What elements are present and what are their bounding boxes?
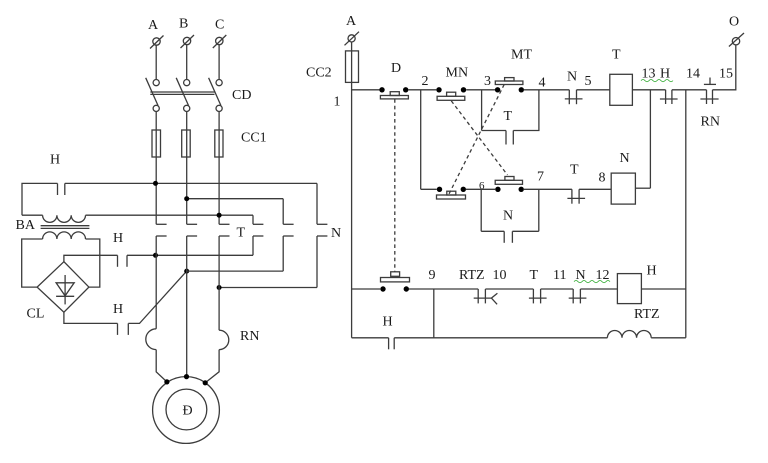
contact H interlock row1 [660, 90, 678, 104]
svg-text:T: T [612, 48, 621, 63]
phase terminal C [213, 35, 227, 48]
svg-text:H: H [647, 264, 657, 279]
control terminal A [345, 32, 360, 46]
wire row3 rail to button [352, 288, 381, 290]
svg-text:5: 5 [585, 74, 592, 89]
wire phase C CD to contact cut [218, 112, 220, 225]
svg-text:1: 1 [334, 95, 341, 110]
wire B terminal to CD [186, 45, 188, 80]
svg-text:3: 3 [484, 74, 491, 89]
contact N self hold [504, 231, 512, 243]
wire row1 D to MN [408, 89, 436, 91]
wire row1 N contact to T coil [577, 89, 610, 91]
pushbutton MN [436, 87, 466, 100]
rectifier CL [37, 262, 89, 313]
wire node6 down [480, 189, 482, 231]
node dot phase B lower [184, 269, 189, 274]
contact H on DC plus line [118, 255, 128, 266]
wire right vertical rail [685, 90, 687, 338]
svg-text:H: H [113, 302, 123, 317]
wire N hold branch right [512, 230, 538, 232]
wire left rail [351, 42, 353, 338]
svg-text:10: 10 [493, 268, 507, 283]
fuse CC1 pole C [215, 130, 223, 157]
wire row2 button1 to button2 [466, 188, 495, 190]
pushbutton forward hold [495, 177, 524, 193]
svg-text:11: 11 [553, 268, 566, 283]
dashed link D to lower button [394, 99, 396, 271]
wire node9 down to row4 [433, 289, 435, 338]
contact RN control [700, 90, 718, 104]
svg-text:MN: MN [446, 66, 469, 81]
coil RTZ inductor [607, 330, 651, 337]
wire secondary right down to CL [86, 239, 100, 287]
wire row1 MT to N contact [524, 89, 569, 91]
wire bus3 primary to leg4 [86, 214, 254, 216]
switch CD [146, 78, 223, 112]
wire phase C lower [218, 236, 220, 330]
fuse CC1 pole A [152, 130, 161, 157]
fuse CC1 pole B [182, 130, 191, 157]
motor D [153, 377, 220, 444]
svg-text:CC1: CC1 [241, 131, 267, 146]
wire leg4 [252, 215, 254, 255]
thermal element RN phase A [146, 329, 156, 350]
svg-text:14: 14 [686, 67, 700, 82]
svg-text:D: D [391, 61, 401, 76]
svg-text:T: T [530, 268, 539, 283]
svg-text:A: A [148, 18, 159, 33]
wire row3 T to N contact [541, 288, 574, 290]
wire node2 down to row2 [420, 90, 422, 190]
svg-text:15: 15 [719, 67, 733, 82]
svg-text:T: T [237, 226, 246, 241]
squiggle under 13 H [641, 80, 673, 82]
thermal element RN phase C [219, 330, 229, 349]
svg-text:7: 7 [537, 170, 544, 185]
wire leg5 [282, 199, 284, 271]
wire row1 T coil to H contact [632, 89, 665, 91]
svg-text:H: H [660, 67, 670, 82]
fuse CC2 [346, 51, 359, 83]
wire secondary left down to CL [22, 239, 43, 287]
svg-text:9: 9 [429, 268, 436, 283]
svg-text:T: T [570, 163, 579, 178]
contact T interlock row3 [529, 289, 547, 303]
dashed link MT to forward hold button [449, 85, 505, 195]
wire phase A to motor [156, 350, 167, 382]
pushbutton D [379, 87, 408, 99]
contact H on DC minus line [118, 323, 129, 335]
wire row1 MN to MT [466, 89, 495, 91]
wire row3 RTZ to T contact [485, 288, 533, 290]
svg-text:B: B [179, 17, 188, 32]
wire leg6 [316, 183, 318, 287]
contact T interlock row2 [567, 189, 585, 203]
dashed link MN to reverse button [451, 101, 507, 175]
wire phase A lower [155, 236, 157, 329]
svg-text:12: 12 [596, 268, 610, 283]
wire row1 RN to O terminal [713, 45, 736, 90]
wire N coil out [635, 187, 650, 189]
svg-text:T: T [504, 109, 513, 124]
wire phase C lower link [219, 287, 317, 289]
svg-text:CC2: CC2 [306, 66, 332, 81]
wire row3 H coil out [641, 288, 685, 290]
wire DC plus line to leg4 [127, 254, 253, 256]
wire phase C to motor [205, 350, 219, 383]
transformer BA [22, 215, 89, 239]
contact N pole 1 [253, 224, 263, 236]
wire row1 H contact to RN [672, 89, 707, 91]
control terminal O [729, 33, 744, 47]
wire CL top to H contact [64, 255, 118, 261]
svg-text:4: 4 [539, 76, 546, 91]
svg-text:O: O [729, 15, 739, 30]
svg-text:RTZ: RTZ [459, 268, 485, 283]
node dot phase C lower [217, 285, 222, 290]
contact H self hold [389, 338, 395, 350]
wire T hold branch [482, 130, 506, 132]
svg-text:H: H [50, 153, 60, 168]
wire row4 right [651, 337, 686, 339]
svg-text:6: 6 [479, 180, 485, 192]
wire CL bottom to H contact [64, 312, 118, 323]
svg-text:N: N [331, 226, 341, 241]
wire row3 button to RTZ contact [409, 288, 478, 290]
svg-text:2: 2 [422, 74, 429, 89]
wire row2 T contact to N coil [579, 188, 611, 190]
svg-text:H: H [113, 231, 123, 246]
node dot phase B bus2 [184, 196, 189, 201]
wire row2 button2 to T contact [524, 188, 572, 190]
wire row1 rail to D [352, 89, 380, 91]
contact T self hold [506, 131, 513, 145]
coil T [610, 74, 633, 105]
svg-text:CD: CD [232, 88, 251, 103]
wire row3 N contact to H coil [580, 288, 617, 290]
svg-text:N: N [503, 209, 513, 224]
pushbutton brake [380, 272, 409, 292]
svg-text:RTZ: RTZ [634, 307, 660, 322]
svg-text:H: H [383, 315, 393, 330]
wire node3 down to T hold branch [481, 90, 483, 131]
svg-text:BA: BA [16, 218, 36, 233]
wire bus1 right segment [65, 182, 317, 184]
wire diagonal DC minus to phase B [128, 271, 186, 323]
wire phase B CD to contact cut [186, 112, 188, 225]
contact N pole 2 [283, 224, 293, 236]
svg-text:8: 8 [599, 171, 606, 186]
node dot phase A bus1 [153, 181, 158, 186]
svg-text:MT: MT [511, 48, 532, 63]
wire bus1 left segment [22, 183, 58, 215]
svg-text:RN: RN [701, 115, 720, 130]
svg-text:C: C [215, 18, 224, 33]
contact T pole A [156, 224, 166, 236]
wire row2 left [421, 188, 437, 190]
svg-text:N: N [620, 151, 630, 166]
svg-text:RN: RN [240, 329, 259, 344]
node dot motor top [184, 374, 189, 379]
wire T hold branch right [513, 90, 539, 131]
contact N pole 3 [317, 224, 327, 236]
wire A terminal to CD [155, 45, 157, 79]
wire row4 left [352, 337, 389, 339]
wire row4 middle [394, 337, 607, 339]
wire phase B lower link [187, 270, 284, 272]
wire N hold branch [481, 230, 504, 232]
squiggle under N 12 [574, 281, 610, 283]
svg-text:CL: CL [27, 307, 45, 322]
pushbutton MT [495, 78, 524, 93]
node dot phase A lower [153, 253, 158, 258]
wire bus2 [187, 198, 284, 200]
coil H [617, 274, 641, 304]
svg-text:N: N [567, 70, 577, 85]
contact H on bus1 [58, 183, 65, 195]
phase terminal B [181, 35, 195, 48]
contact RTZ timed [474, 289, 498, 304]
node dot motor left [164, 379, 169, 384]
RN release mark [704, 78, 716, 85]
contact T pole C [219, 224, 229, 236]
node dot phase C bus3 [217, 213, 222, 218]
node dot motor right [203, 380, 208, 385]
wire C terminal to CD [218, 45, 220, 80]
svg-text:Đ: Đ [183, 404, 193, 419]
phase terminal A [150, 36, 164, 49]
contact N interlock row1 [565, 90, 583, 104]
wire node7 down [538, 189, 540, 231]
coil N [611, 173, 635, 204]
wire node13 down to N coil [649, 90, 651, 188]
pushbutton reverse hold [437, 187, 466, 199]
wire phase A CD to contact cut [155, 112, 157, 225]
wire phase B lower [186, 236, 188, 377]
contact T pole B [187, 224, 197, 236]
svg-text:A: A [346, 14, 357, 29]
contact N interlock row3 [569, 289, 587, 303]
